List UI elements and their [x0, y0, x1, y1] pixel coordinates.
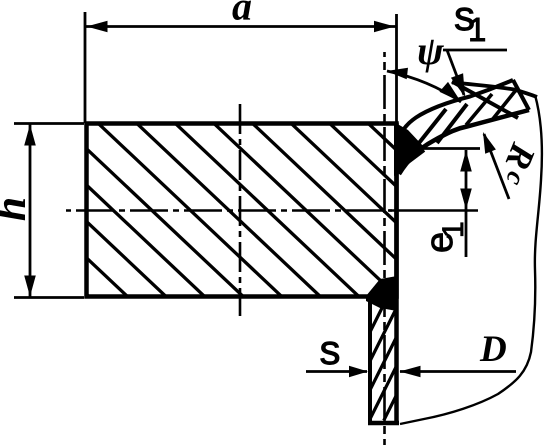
svg-text:ψ: ψ [417, 28, 444, 73]
svg-text:1: 1 [468, 11, 486, 48]
svg-text:D: D [479, 329, 507, 370]
svg-text:a: a [232, 0, 252, 29]
svg-text:h: h [0, 197, 35, 221]
svg-text:s: s [320, 326, 341, 373]
svg-text:1: 1 [437, 221, 470, 238]
